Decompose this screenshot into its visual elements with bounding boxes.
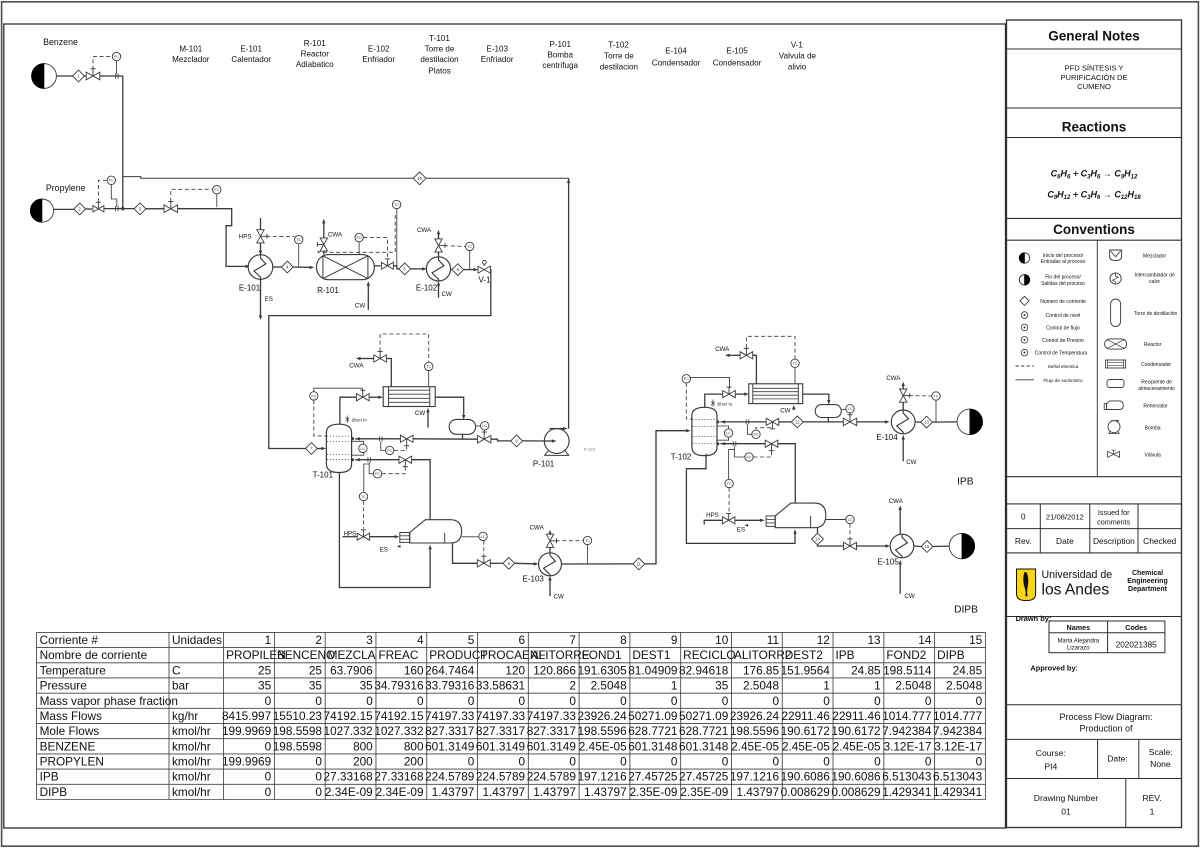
svg-text:2: 2 [569,679,576,693]
svg-text:Adiabatico: Adiabatico [296,60,334,69]
control valve condenser CWA [374,355,387,362]
svg-text:Universidad de: Universidad de [1042,569,1113,581]
signal wire LC to distillate valve [483,430,485,434]
signal wire LC to bottoms valve T-102 [849,524,851,539]
signal wire E-104 valve to TC [909,395,922,397]
legend mezclador symbol [1110,250,1122,261]
svg-text:0: 0 [468,694,475,708]
svg-text:Conventions: Conventions [1053,222,1135,237]
svg-text:2.45E-05: 2.45E-05 [731,739,779,753]
svg-text:1: 1 [671,679,678,693]
control valve T-101 overhead [357,394,370,401]
svg-text:CWA: CWA [349,363,364,370]
svg-text:190.6086: 190.6086 [831,770,881,784]
svg-text:ES: ES [265,296,273,303]
svg-text:3.12E-17: 3.12E-17 [884,739,932,753]
svg-text:0: 0 [265,694,272,708]
svg-text:6.513043: 6.513043 [882,770,932,784]
svg-text:IPB: IPB [40,770,59,784]
svg-text:CWA: CWA [886,375,901,382]
svg-text:DIPB: DIPB [954,605,978,616]
legend intercambiador symbol [1110,273,1121,284]
svg-text:120: 120 [505,663,525,677]
wire diamond 11 to T-102 feed [645,431,686,564]
svg-text:827.3317: 827.3317 [527,724,576,738]
svg-text:22911.46: 22911.46 [832,709,881,723]
signal wire FC to boilup valve [382,467,405,474]
svg-text:2.35E-09: 2.35E-09 [630,785,678,799]
instrument tap wire TC E-104 outlet [935,400,937,422]
svg-text:2.5048: 2.5048 [895,679,932,693]
tick marks boilup FC tap T-102 [732,441,734,446]
svg-text:27.45725: 27.45725 [679,770,729,784]
wire E-103 outlet to diamond 11 [562,563,633,565]
svg-text:827.3317: 827.3317 [476,724,525,738]
svg-text:Control de nivel: Control de nivel [1046,313,1081,319]
svg-text:PI4: PI4 [1044,762,1057,772]
control valve T-102 overhead [723,391,736,398]
ES arrowhead at nozzle T-102 [745,524,749,527]
legend fin del proceso symbol [1019,275,1029,285]
wire CWA valve to arrow [359,358,374,360]
svg-text:800: 800 [353,739,373,753]
svg-text:Corriente #: Corriente # [40,633,99,647]
legend rehervidor symbol [1107,401,1124,410]
instrument tap wire TC condenser [428,371,430,387]
svg-text:T-102: T-102 [608,41,629,50]
svg-text:151.9564: 151.9564 [781,663,831,677]
svg-text:Propylene: Propylene [46,183,86,193]
svg-text:0: 0 [315,755,322,769]
svg-text:Señal electrica: Señal electrica [1048,364,1079,369]
heat exchanger E-102 (enfriador) [426,257,450,281]
svg-text:Enfriador: Enfriador [481,55,514,64]
svg-text:P-122: P-122 [584,447,596,452]
control valve reflux T-101 [400,435,413,442]
valve on benzene feed [86,72,100,80]
svg-text:Issued for: Issued for [1098,508,1130,517]
svg-text:199.9969: 199.9969 [222,724,271,738]
heat exchanger E-104 (condensador) [891,410,915,434]
svg-text:13: 13 [924,420,929,425]
wire overhead valve to condenser T-102 [735,393,745,395]
signal wire LC to distillate valve T-102 [849,413,851,417]
tick marks benzene tap [115,73,117,78]
tick marks boilup FC tap [367,457,369,462]
svg-text:Benzene: Benzene [43,37,78,47]
svg-text:FC: FC [375,472,380,476]
svg-text:T-101: T-101 [429,34,450,43]
flow arrow into R-101 [310,266,315,269]
junction node mixer M-101 [121,207,124,210]
svg-text:601.3149: 601.3149 [476,739,525,753]
feed symbol Propylene (inicio del proceso) [30,199,53,222]
svg-text:27.33168: 27.33168 [324,770,374,784]
wire mixed feed to E-101 [178,209,247,267]
control valve R-101 outlet [381,262,393,269]
svg-text:None: None [1150,759,1171,769]
instrument TC E-103 [583,536,591,544]
svg-text:0: 0 [772,755,779,769]
flow arrow into E-101 [246,265,251,268]
svg-text:25: 25 [258,663,272,677]
CWA wire from E-104 top [902,402,904,410]
svg-text:2.5048: 2.5048 [946,679,983,693]
svg-text:FOND1: FOND1 [582,648,622,662]
svg-text:1014.777: 1014.777 [933,709,982,723]
svg-text:200: 200 [404,755,424,769]
instrument TC E-101 [295,235,303,243]
svg-text:628.7721: 628.7721 [628,724,677,738]
reflux/distillate wire T-102 [721,421,767,423]
svg-text:TC: TC [585,539,590,543]
legend divider [1096,240,1098,477]
svg-text:15510.23: 15510.23 [273,709,323,723]
flow arrow into E-103 [534,562,539,565]
svg-text:MEZCLA: MEZCLA [328,648,376,662]
control valve reflux T-102 [766,418,779,425]
svg-text:TC: TC [394,203,399,207]
instrument TC E-102 [466,242,474,250]
instrument FC boilup T-101 [373,470,381,478]
wire drum outlet down T-102 [827,418,829,422]
svg-text:T-101: T-101 [313,471,334,480]
signal wire PC to overhead valve [314,388,363,392]
svg-text:0: 0 [620,694,627,708]
svg-text:Engineering: Engineering [1127,578,1167,585]
svg-text:224.5789: 224.5789 [425,770,474,784]
stream diamond 6 [452,264,464,276]
signal wire condenser TC to CWA valve T-102 [746,336,795,359]
stream diamond 4 [281,261,293,273]
svg-text:1.43797: 1.43797 [584,785,627,799]
svg-text:Valvula de: Valvula de [779,51,817,60]
svg-text:IPB: IPB [836,648,855,662]
svg-text:0: 0 [519,755,526,769]
legend control de flujo [1021,324,1028,331]
instrument tap wire FC propylene [111,185,117,208]
instrument TC R-101 product line [392,200,400,208]
svg-text:Control de Presion: Control de Presion [1042,338,1084,344]
CW wire into E-104 bottom [902,438,904,462]
instrument tap wire FC reflux [381,441,385,450]
instrument tap wire FC boilup T-102 [735,446,745,457]
CW wire into E-103 bottom [549,579,551,597]
svg-text:264.7464: 264.7464 [425,663,475,677]
svg-text:P-101: P-101 [533,460,555,469]
feed symbol Benzene (inicio del proceso) [32,64,57,89]
svg-text:Drawing Number: Drawing Number [1034,793,1099,803]
svg-text:2.35E-09: 2.35E-09 [680,785,728,799]
flow arrow into reflux drum [462,415,465,420]
product symbol DIPB (fin del proceso) [949,533,974,558]
signal wire propylene valve to FC [98,180,106,202]
svg-text:Mole Flows: Mole Flows [40,724,100,738]
svg-text:Drawn by:: Drawn by: [1016,614,1052,623]
bottoms product wire from reboiler T-102 [817,528,819,533]
svg-text:CW: CW [780,407,790,414]
svg-text:Mezclador: Mezclador [172,55,210,64]
svg-text:Pressure: Pressure [40,679,88,693]
svg-text:CW: CW [415,410,425,417]
svg-text:HPS: HPS [706,512,719,519]
heat exchanger E-101 (calentador) [248,255,273,280]
svg-text:CWA: CWA [417,227,432,234]
svg-text:TC: TC [793,362,798,366]
svg-text:TC: TC [467,245,472,249]
flow arrow reflux into T-102 [721,420,726,423]
control valve distillate LC T-101 [478,435,491,443]
svg-text:Course:: Course: [1036,748,1066,758]
revision table [1007,504,1182,553]
wire diamond 9 to pump suction [523,440,552,442]
svg-text:kmol/hr: kmol/hr [172,739,211,753]
annotation @set to at T-101 [346,416,348,424]
svg-text:Válvula: Válvula [1144,452,1161,458]
svg-text:24.85: 24.85 [851,663,881,677]
signal wire FC to reflux valve T-102 [756,428,773,430]
svg-text:0: 0 [519,694,526,708]
svg-text:8: 8 [620,633,627,647]
svg-text:Entradas al proceso: Entradas al proceso [1041,259,1086,265]
signal wire TC overhead to R-101 CWA valve [318,215,395,252]
svg-text:74192.15: 74192.15 [374,709,424,723]
sidebar panel frame [1007,20,1182,828]
instrument LC reboiler T-101 [479,532,487,540]
svg-text:E-101: E-101 [239,284,261,293]
svg-text:Flujo de suministro: Flujo de suministro [1043,378,1083,383]
svg-text:2.5048: 2.5048 [743,679,780,693]
svg-text:Mass Flows: Mass Flows [40,709,102,723]
svg-text:destilacion: destilacion [420,55,458,64]
main drawing frame [4,24,1006,828]
svg-text:LC: LC [726,431,731,435]
svg-text:23926.24: 23926.24 [577,709,627,723]
svg-text:Date:: Date: [1107,753,1128,763]
svg-text:FC: FC [109,179,114,183]
svg-text:HPS: HPS [239,234,252,241]
svg-text:PC: PC [357,236,362,240]
instrument FC reflux T-102 [752,430,760,438]
reboiler T-102 (kettle) [775,503,826,528]
flow arrow into reflux drum T-102 [827,400,830,405]
svg-text:0: 0 [315,770,322,784]
bottoms wire T-102 to reboiler [686,454,795,544]
svg-text:Fin del proceso/: Fin del proceso/ [1045,275,1081,281]
condensate wire condenser to reflux drum T-102 [803,394,829,401]
bottoms wire T-101 to reboiler [339,473,430,588]
svg-text:CWA: CWA [530,525,545,532]
instrument tap wire TC bottom of T-102 [729,450,735,480]
svg-text:35: 35 [360,679,374,693]
svg-text:LC: LC [361,447,366,451]
svg-text:1.43797: 1.43797 [533,785,576,799]
reboiler T-101 (kettle) [410,520,462,543]
svg-text:601.3148: 601.3148 [628,739,678,753]
svg-text:33.58631: 33.58631 [476,679,525,693]
instrument TC condenser T-102 [791,359,799,367]
svg-text:74197.33: 74197.33 [527,709,577,723]
svg-text:V-1: V-1 [791,41,804,50]
svg-text:@set to: @set to [352,417,368,422]
svg-text:CW: CW [442,291,452,298]
svg-text:0: 0 [569,694,576,708]
svg-text:224.5789: 224.5789 [476,770,525,784]
svg-text:CWA: CWA [328,231,343,238]
wire propylene valve to mixer junction [104,208,134,210]
svg-text:8415.997: 8415.997 [222,709,271,723]
signal wire TC to HPS valve T-102 [728,488,730,513]
signal wire TC to HPS valve [363,501,365,529]
svg-text:General Notes: General Notes [1048,29,1140,44]
wire HPS valve to reboiler nozzle T-102 [735,519,761,521]
svg-text:Control de Temperatura: Control de Temperatura [1035,351,1088,357]
wire diamond 3 to control valve [146,208,164,210]
svg-text:3.12E-17: 3.12E-17 [934,739,982,753]
HPS supply stub into E-101 valve [260,218,262,230]
flow arrow recycle junction [567,178,570,183]
svg-text:24.85: 24.85 [953,663,983,677]
control valve condenser CWA T-102 [740,352,753,359]
svg-text:P-101: P-101 [549,40,571,49]
overhead vapor wire T-102 to condenser [705,394,723,407]
wire E-101 outlet to diamond 4 [273,266,281,268]
flow arrow into E-105 [886,544,891,547]
flow arrow reflux into T-101 [355,437,360,440]
svg-text:9: 9 [671,633,678,647]
svg-text:0: 0 [1021,513,1026,522]
svg-text:3: 3 [366,633,373,647]
svg-text:827.3317: 827.3317 [425,724,474,738]
svg-text:0: 0 [468,755,475,769]
annotation @set to at T-102 [712,400,714,408]
wire control valve to diamond 5 with jog [393,266,398,269]
svg-text:4: 4 [417,633,424,647]
svg-text:35: 35 [258,679,272,693]
svg-text:0: 0 [772,694,779,708]
svg-text:0: 0 [366,694,373,708]
wire benzene feed to diamond 1 [56,75,72,77]
svg-text:E-101: E-101 [240,45,262,54]
legend reactor symbol [1105,339,1127,349]
svg-text:0: 0 [265,770,272,784]
svg-text:bar: bar [172,679,189,693]
HPS supply wire [343,536,358,538]
instrument TC T-102 bottoms [725,479,733,487]
stream diamond 14 [812,533,824,545]
heat exchanger E-105 (condensador) [890,534,914,558]
wire diamond 6 to V-1 [464,269,474,271]
svg-text:176.85: 176.85 [743,663,780,677]
instrument TC T-101 bottoms [359,492,367,500]
legend senal electrica [1016,365,1035,367]
signal wire LC to bottoms valve [483,541,485,557]
heat exchanger E-103 (enfriador) [539,553,562,576]
svg-text:198.5596: 198.5596 [730,724,780,738]
svg-text:190.6172: 190.6172 [781,724,830,738]
svg-text:0: 0 [417,694,424,708]
wire E-105 outlet to diamond 15 [914,545,921,548]
svg-text:14: 14 [815,537,820,542]
svg-text:TC: TC [296,238,301,242]
CW wire into E-105 bottom [899,562,901,594]
svg-text:0: 0 [315,785,322,799]
control valve boilup T-102 [765,440,778,447]
svg-text:7.942384: 7.942384 [882,724,932,738]
svg-text:Reactor: Reactor [1144,342,1162,348]
steam valve on E-102 CWA line [435,239,442,252]
svg-text:RECICLO: RECICLO [683,648,735,662]
stream diamond 7 [306,443,318,455]
weir line in reboiler T-102 [810,516,812,528]
svg-text:0.008629: 0.008629 [831,785,880,799]
svg-text:Date: Date [1056,536,1074,546]
instrument LC reflux drum T-101 [481,422,489,430]
svg-text:Bomba: Bomba [547,51,573,60]
CWA wire from E-105 top [899,509,901,535]
svg-text:Torre de: Torre de [425,45,455,54]
svg-text:Names: Names [1067,623,1091,632]
instrument FC reflux T-101 [386,446,394,454]
wire R-101 outlet [374,265,380,267]
svg-text:1.429341: 1.429341 [882,785,931,799]
svg-text:kmol/hr: kmol/hr [172,724,211,738]
instrument tap wire FC boilup [369,462,373,473]
svg-text:M-101: M-101 [179,45,202,54]
svg-text:0: 0 [671,755,678,769]
instrument LC column T-102 bracket [717,426,728,429]
reboiler inlet nozzle T-102 [766,516,775,527]
svg-text:Mass vapor phase fraction: Mass vapor phase fraction [40,694,178,708]
control valve bottoms T-101 [477,560,490,567]
svg-text:2.5048: 2.5048 [591,679,628,693]
condenser T-101 (shell and tube) [383,387,435,407]
signal wire control valve to FC (mixed feed) [171,189,212,201]
svg-text:12: 12 [817,633,830,647]
legend numero de corriente symbol [1020,296,1029,305]
svg-text:2.45E-05: 2.45E-05 [579,739,627,753]
svg-text:35: 35 [715,679,729,693]
wire diamond 13 to IPB product [933,421,957,423]
svg-text:BENZENE: BENZENE [40,739,96,753]
wire E-101 bottom ES outlet [260,279,262,316]
svg-text:0: 0 [620,755,627,769]
svg-text:2.45E-05: 2.45E-05 [782,739,830,753]
svg-text:Bomba: Bomba [1145,426,1161,432]
svg-text:198.5598: 198.5598 [273,724,323,738]
svg-text:T-102: T-102 [671,453,692,462]
instrument tap wire PC R-101 [358,242,360,255]
svg-text:2: 2 [315,633,322,647]
svg-text:REV.: REV. [1142,793,1161,803]
wire benzene downcomer [122,76,124,209]
svg-text:6: 6 [519,633,526,647]
svg-text:Calentador: Calentador [231,55,271,64]
svg-text:Intercambiador de: Intercambiador de [1134,273,1175,279]
svg-text:LC: LC [848,407,853,411]
wire diamond 15 to DIPB product [933,545,949,547]
svg-text:CWA: CWA [715,346,730,353]
flow arrow into reboiler bottom [428,545,431,550]
svg-text:Inicio del proceso/: Inicio del proceso/ [1043,253,1084,259]
svg-text:C: C [172,663,181,677]
svg-text:E-105: E-105 [877,558,899,567]
instrument tap wire FC mixed feed [216,194,218,207]
svg-text:Torre de destilación: Torre de destilación [1134,311,1178,317]
svg-text:FC: FC [387,449,392,453]
svg-text:DEST2: DEST2 [785,648,823,662]
condenser T-102 (shell and tube) [749,384,803,404]
